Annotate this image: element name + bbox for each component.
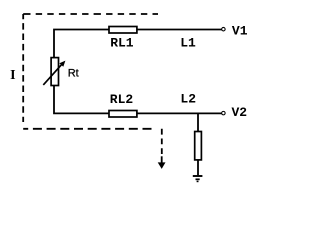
thermistor Rt arrow [43, 65, 61, 85]
svg-text:V1: V1 [232, 24, 248, 39]
wire L1 [137, 29, 222, 31]
thermistor Rt body [51, 58, 58, 86]
resistor RL2 [109, 111, 137, 118]
svg-text:RL1: RL1 [110, 36, 134, 51]
svg-text:RL2: RL2 [110, 92, 134, 107]
terminal V2 [222, 111, 226, 115]
svg-text:L1: L1 [180, 36, 196, 51]
svg-text:L2: L2 [180, 92, 196, 107]
svg-text:I: I [10, 68, 15, 83]
dashed current loop: left edge [22, 14, 24, 122]
svg-text:V2: V2 [231, 105, 247, 120]
resistor RL1 [109, 27, 137, 34]
terminal V1 [222, 27, 226, 31]
dashed current loop: top edge [23, 13, 158, 15]
dashed current loop: bottom edge [23, 128, 156, 130]
svg-text:Rt: Rt [68, 67, 79, 79]
wire L2 [137, 112, 222, 114]
wire: resistor to ground [197, 160, 199, 175]
bridge resistor body [195, 132, 202, 160]
current direction arrow stem [161, 156, 163, 163]
wire: top-left corner to RL1 [54, 30, 109, 58]
current direction arrowhead [158, 162, 166, 169]
dashed current loop: right drop [161, 129, 163, 156]
wire: Rt bottom corner to RL2 [54, 86, 109, 114]
ground symbol [193, 176, 203, 181]
wire: junction to bridge resistor [197, 113, 199, 131]
